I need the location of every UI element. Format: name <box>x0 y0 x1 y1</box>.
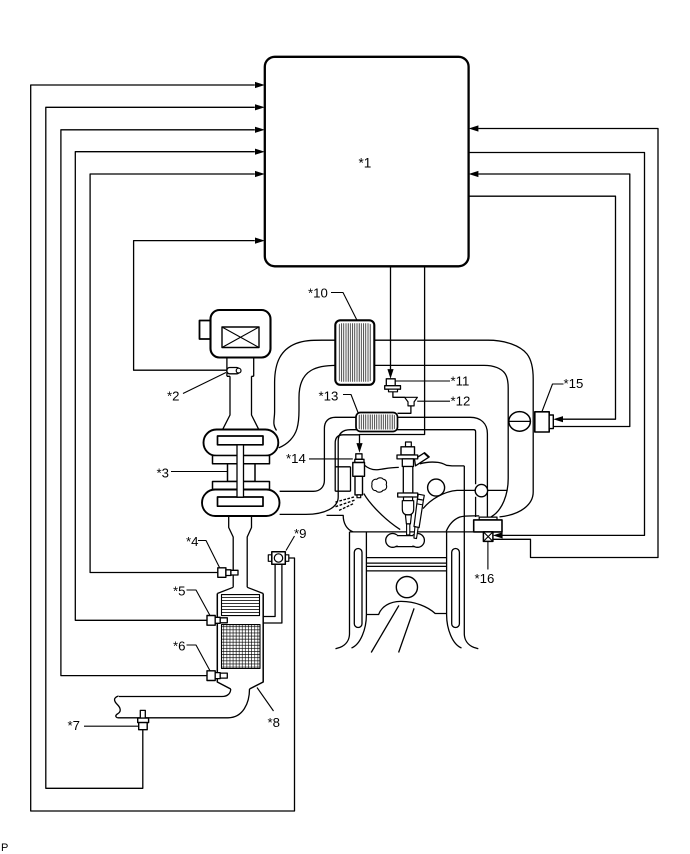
engine block left outer wall <box>336 532 350 649</box>
piston crown and rings <box>366 558 446 571</box>
port injector *14 <box>356 454 362 460</box>
wire intake-pipe upper inner edge <box>279 365 508 517</box>
engine block right outer wall <box>464 466 478 649</box>
engine deck left <box>327 515 354 531</box>
arrow into *14 <box>356 443 362 453</box>
wire input 2 from sensor *7 to ECM <box>46 107 255 788</box>
label pointer *2 <box>183 373 226 394</box>
throttle body upper plate <box>218 436 264 445</box>
svg-text:*7: *7 <box>68 718 80 733</box>
sensor *7 body <box>140 710 145 718</box>
svg-text:*16: *16 <box>475 571 495 586</box>
wire lower pipe bottom edge via EGR cooler <box>280 430 476 515</box>
svg-text:*12: *12 <box>451 394 471 409</box>
throttle shaft bar <box>237 445 244 497</box>
label wire *12 <box>417 400 450 402</box>
injector body <box>402 459 413 467</box>
label pointer *7 <box>84 725 139 727</box>
arrow into ECM 6 <box>255 238 265 244</box>
svg-text:*6: *6 <box>173 639 185 654</box>
sensor *15 body <box>535 412 549 432</box>
sensor *9 tube to converter <box>263 564 282 623</box>
wire intake-pipe upper outer edge <box>274 340 533 517</box>
cylinder head top surface right wavy <box>420 462 465 466</box>
sensor *12 funnel <box>405 397 418 406</box>
cylinder head top surface left wavy <box>365 465 399 470</box>
injector lower flange <box>398 493 418 497</box>
wire input 4 from sensor *5 to ECM <box>75 152 255 621</box>
sensor *16 flange <box>479 517 497 520</box>
wire lower pipe left line below junction circle <box>475 497 477 517</box>
label pointer *10 <box>331 293 357 321</box>
port injector manifold box <box>335 435 359 491</box>
ECM *1 box <box>265 57 469 266</box>
arrow into ECM 4 <box>255 149 265 155</box>
wire input 5 from sensor *4 to ECM <box>90 174 255 573</box>
label pointer *6 <box>187 645 211 671</box>
arrow into ECM 3 <box>255 127 265 133</box>
air cleaner *2 housing <box>211 310 271 358</box>
throttle body lower plate <box>218 497 264 506</box>
air cleaner side tab <box>200 321 211 340</box>
junction circle on lower pipe <box>475 484 487 496</box>
wire output ECM to *16 <box>469 153 645 536</box>
arrow into *11 <box>387 369 393 379</box>
svg-text:*1: *1 <box>359 156 372 171</box>
svg-text:P: P <box>1 842 8 854</box>
label pointer *15 <box>542 384 564 412</box>
intake port wall under port injector <box>364 494 400 530</box>
wire lower pipe top edge via EGR cooler <box>280 417 488 517</box>
wire input from knock sensor *16 to ECM <box>478 129 658 558</box>
engine cylinder bore right wall <box>447 532 462 648</box>
wire output ECM to injector *14 <box>360 267 425 444</box>
sensor *11 body <box>386 379 395 386</box>
label pointer *16 <box>487 541 489 569</box>
connecting rod <box>371 605 414 652</box>
injector side lever <box>415 453 430 466</box>
wire input 1 from sensor *9 to ECM <box>31 85 295 811</box>
throttle body middle block <box>228 464 256 482</box>
air cleaner inlet duct <box>223 358 259 430</box>
arrow into ECM 5 <box>255 171 265 177</box>
head circle right <box>428 479 445 496</box>
wire *12 to cooler pipe <box>398 406 411 413</box>
throttle body lower flange <box>213 482 270 490</box>
converter shoulders <box>217 587 263 593</box>
svg-text:*2: *2 <box>167 389 179 404</box>
combustion chamber recess <box>386 534 400 548</box>
svg-text:*10: *10 <box>308 286 328 301</box>
piston wrist pin <box>396 577 417 598</box>
arrow into *16 <box>493 532 503 538</box>
label pointer *5 <box>187 590 211 616</box>
glow plug <box>417 494 424 500</box>
label wire *14 <box>309 458 353 460</box>
arrow into ECM right 1 <box>469 125 479 131</box>
tail pipe elbow <box>118 689 250 718</box>
label pointer *13 <box>343 395 358 413</box>
throttle body lower housing <box>202 490 280 517</box>
svg-text:*9: *9 <box>294 526 306 541</box>
label wire *11 <box>395 380 450 382</box>
engine water jacket slot right <box>452 549 460 628</box>
svg-text:*4: *4 <box>186 534 198 549</box>
injector flange <box>397 455 418 459</box>
sensor *9 body <box>268 555 272 562</box>
wire output ECM to *11 <box>390 267 392 370</box>
sensor *4 body <box>218 568 226 578</box>
wire input from *15 to ECM <box>478 174 629 427</box>
wire *11 to *12 <box>393 392 405 398</box>
engine cylinder bore left wall <box>352 532 367 648</box>
wire intake port upper wall <box>423 490 507 508</box>
exhaust pipe to converter <box>229 516 252 588</box>
ignition coil *10 <box>335 320 374 385</box>
svg-text:*5: *5 <box>173 584 185 599</box>
svg-text:*15: *15 <box>564 376 584 391</box>
sensor *16 X-box <box>483 532 493 542</box>
air cleaner element box with X <box>222 327 259 348</box>
label pointer *4 <box>198 541 220 568</box>
engine water jacket slot left <box>354 549 362 628</box>
wire input 3 from sensor *6 to ECM <box>61 130 255 676</box>
piston skirt bottom <box>366 601 446 614</box>
arrow into ECM 2 <box>255 104 265 110</box>
sensor *16 body <box>474 520 502 532</box>
engine cylinder head joint line <box>350 531 474 533</box>
converter lower substrate mesh <box>222 625 261 669</box>
arrow into ECM 1 <box>255 82 265 88</box>
valve ellipse on intake pipe <box>509 412 531 432</box>
label pointer *8 <box>257 688 274 712</box>
arrow into *15 <box>553 416 563 422</box>
tail pipe break squiggle <box>115 696 121 718</box>
wire output ECM to *15 <box>469 196 616 419</box>
MAF sensor on neck <box>227 368 240 374</box>
svg-text:*13: *13 <box>319 389 339 404</box>
svg-text:*8: *8 <box>268 715 280 730</box>
wire input 6 from MAF *2 to ECM <box>134 241 255 371</box>
injector nozzle <box>404 497 413 501</box>
wire intake port lower wall <box>446 516 479 532</box>
head coolant cavity blob <box>372 478 387 492</box>
injector spray dashes <box>335 497 354 510</box>
throttle body upper flange <box>213 456 270 464</box>
converter body <box>217 594 263 690</box>
sensor *5 body <box>207 616 215 626</box>
svg-text:*3: *3 <box>157 466 169 481</box>
converter upper substrate stripes <box>222 595 260 616</box>
svg-text:*11: *11 <box>451 374 470 389</box>
label pointer *3 <box>171 471 228 473</box>
sensor *6 body <box>207 671 215 681</box>
EGR cooler *13 <box>356 413 398 432</box>
main injector stem <box>406 442 412 447</box>
label pointer *9 <box>286 536 295 551</box>
throttle body upper housing <box>204 430 279 456</box>
arrow into ECM right 2 <box>469 171 479 177</box>
svg-text:*14: *14 <box>286 451 306 466</box>
